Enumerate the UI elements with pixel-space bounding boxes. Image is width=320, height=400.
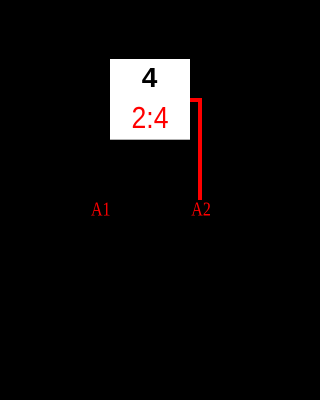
wire elbow to A2 [190,100,200,200]
svg-text:A1: A1 [91,198,111,220]
node box [110,59,190,140]
svg-text:2:4: 2:4 [132,101,169,135]
svg-text:A2: A2 [191,198,211,220]
svg-text:4: 4 [142,62,158,93]
